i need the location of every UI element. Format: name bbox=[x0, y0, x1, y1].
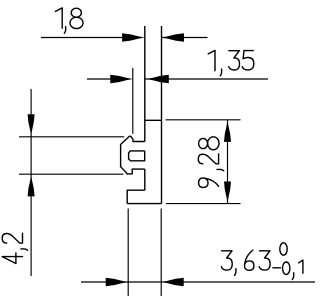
dimension 9,28 extension lines bbox=[166, 120, 241, 204]
arrow 1,8 right bbox=[162, 33, 185, 41]
dimension 3,63 extension lines bbox=[128, 209, 161, 297]
clip outline bbox=[121, 136, 145, 174]
arrow 4,2 top bbox=[28, 114, 35, 136]
wall internal step edge bbox=[145, 119, 162, 121]
foot step edge bbox=[127, 190, 145, 203]
text 9,28 (rotated) bbox=[198, 137, 223, 188]
text 1,35 bbox=[208, 50, 254, 75]
arrow 3,63 left bbox=[106, 278, 129, 286]
dimension 4,2 line bbox=[30, 89, 32, 276]
dimension 1,8 line bbox=[41, 37, 208, 39]
arrow 9,28 top bbox=[224, 120, 231, 141]
dimension 3,63 line bbox=[81, 281, 315, 283]
wall right line bbox=[161, 26, 163, 204]
arrow 9,28 bottom bbox=[224, 182, 231, 204]
arrow 1,35 right bbox=[146, 75, 169, 83]
dimension 1,35 extension line bbox=[132, 68, 134, 134]
dimension 9,28 line bbox=[227, 120, 229, 204]
arrow 1,35 left bbox=[110, 75, 133, 83]
arrow 1,8 left bbox=[122, 33, 145, 41]
text 3,63 bbox=[221, 250, 270, 275]
foot bottom edge bbox=[127, 203, 161, 205]
wall left line bbox=[144, 26, 146, 190]
arrow 4,2 bottom bbox=[28, 175, 35, 197]
dimension 4,2 extension lines bbox=[19, 137, 124, 174]
text 1,8 bbox=[55, 8, 83, 33]
clip mouth notch bbox=[129, 151, 145, 161]
dimension 1,35 line bbox=[87, 78, 268, 80]
text tolerance upper 0 bbox=[280, 243, 287, 255]
text 4,2 (rotated) bbox=[2, 233, 27, 263]
text tolerance lower -0,1 bbox=[273, 260, 303, 279]
arrow 3,63 right bbox=[161, 278, 184, 286]
